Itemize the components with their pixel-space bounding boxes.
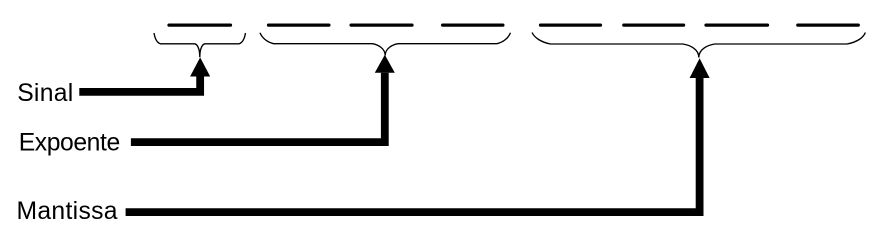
arrow Mantissa: L-shaped shaft [126,78,700,212]
bit dash 6 (mantissa field) [624,24,684,27]
arrow Expoente: head [375,55,395,73]
bit dash 7 (mantissa field) [706,24,768,27]
arrow Mantissa: head [690,58,710,78]
bit dash 8 (mantissa field) [798,24,859,27]
svg-text:Sinal: Sinal [17,80,73,107]
bit dash 1 (sign field) [169,24,231,27]
bit dash 4 (exponent field) [443,24,503,27]
arrow Sinal: head [190,57,210,76]
brace under sign field [154,33,246,57]
svg-text:Mantissa: Mantissa [17,198,118,225]
brace under exponent field [260,33,511,56]
bit dash 3 (exponent field) [351,24,412,27]
bit dash 5 (mantissa field) [541,24,601,27]
bit dash 2 (exponent field) [269,24,329,27]
svg-text:Expoente: Expoente [19,130,121,157]
arrow Expoente: L-shaped shaft [131,73,385,142]
brace under mantissa field [532,33,865,58]
arrow Sinal: L-shaped shaft [79,77,200,92]
